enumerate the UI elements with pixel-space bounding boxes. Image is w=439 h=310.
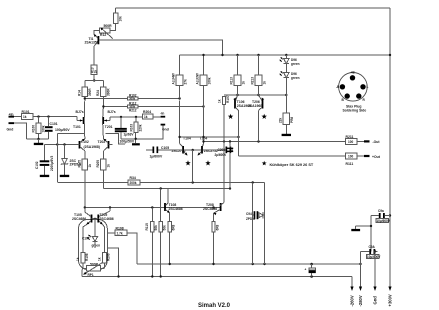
svg-text:390R: 390R — [88, 88, 92, 96]
svg-text:+B: +B — [351, 71, 356, 75]
wire T11 collector — [100, 40, 223, 55]
svg-text:1k: 1k — [94, 70, 98, 74]
svg-text:T202: T202 — [98, 140, 106, 144]
svg-text:R103: R103 — [129, 124, 133, 132]
svg-text:1k: 1k — [144, 115, 148, 119]
wire rail B y276.5 — [82, 276, 352, 278]
svg-text:ALU3W: ALU3W — [196, 73, 200, 84]
svg-text:R14: R14 — [78, 90, 82, 96]
svg-text:100µ/50V: 100µ/50V — [120, 140, 135, 144]
svg-text:-Out: -Out — [373, 140, 381, 144]
svg-text:2µ/600V: 2µ/600V — [215, 153, 228, 157]
terminal +300V — [388, 287, 393, 307]
wire mid supply vertical — [370, 216, 372, 252]
transistor T104 — [172, 101, 191, 156]
svg-text:22k: 22k — [279, 118, 283, 123]
resistor R204 1k — [110, 110, 161, 119]
resistor R110 emitter T108 — [168, 213, 176, 264]
resistor R209 top right load — [196, 54, 212, 107]
wire -Out rail y141.5 — [204, 141, 346, 143]
wire rail y207.5 — [85, 207, 221, 209]
capacitor C205 — [226, 147, 234, 154]
svg-text:1k: 1k — [88, 164, 92, 168]
resistor R34 200k — [128, 176, 140, 185]
svg-text:500R: 500R — [104, 24, 113, 28]
wire -280V drop — [360, 252, 362, 288]
wire T202 source elbow — [106, 134, 125, 145]
svg-text:C105: C105 — [161, 146, 169, 150]
resistor R102 300k — [127, 93, 138, 100]
star T204 — [205, 160, 211, 165]
resistor R108 1.7k — [107, 226, 137, 264]
svg-text:BJ7s: BJ7s — [76, 110, 84, 114]
resistor R11 — [110, 8, 122, 30]
capacitor C9a — [371, 209, 391, 223]
resistor R105 — [78, 151, 92, 208]
node dots rail y55 — [221, 54, 223, 56]
wire base join pair — [92, 218, 99, 220]
svg-text:Kühlköper SK 629 26 ST: Kühlköper SK 629 26 ST — [270, 163, 314, 167]
resistor R117 — [279, 95, 294, 134]
svg-text:T101: T101 — [73, 125, 81, 129]
svg-text:100: 100 — [348, 155, 353, 159]
transistor T105 — [72, 208, 92, 253]
wire gnd bus left — [27, 138, 49, 140]
svg-text:green: green — [291, 76, 300, 80]
terminal -260V — [350, 287, 355, 307]
zener ZPD6.8 — [246, 212, 265, 221]
resistor R112 100k — [127, 101, 138, 112]
star note — [262, 161, 267, 166]
capacitor C104 — [115, 116, 135, 144]
wire base line y150 — [146, 149, 153, 151]
resistor R106 — [76, 253, 89, 269]
terminal -Out — [364, 140, 380, 144]
resistor R13 — [90, 46, 97, 81]
svg-text:R107: R107 — [226, 95, 230, 103]
zener D101 ZPD5.6 — [61, 145, 81, 175]
svg-text:390R: 390R — [106, 88, 110, 96]
svg-text:R106: R106 — [85, 253, 89, 261]
svg-text:10k: 10k — [118, 16, 122, 21]
svg-text:+: + — [305, 268, 307, 272]
svg-text:1k: 1k — [217, 99, 221, 103]
svg-text:2SA1358: 2SA1358 — [85, 40, 99, 44]
wire tail node vertical — [56, 134, 58, 183]
transistor T106 — [233, 95, 251, 156]
svg-text:C208: C208 — [218, 148, 226, 152]
led D206 green — [280, 71, 300, 95]
svg-text:R100: R100 — [31, 125, 35, 133]
resistor R205 — [96, 151, 110, 189]
wire bias rail y55 — [180, 54, 390, 56]
svg-text:300k: 300k — [129, 97, 135, 101]
svg-text:Gnd: Gnd — [373, 296, 378, 305]
wire -260V drop — [351, 277, 353, 288]
svg-text:2SC4686: 2SC4686 — [203, 207, 217, 211]
wire pot to rail B — [82, 268, 83, 276]
terminal Gnd left — [7, 122, 27, 139]
led D107 — [82, 235, 100, 248]
resistor R210 emitter T208 — [212, 213, 220, 264]
resistor R213 — [251, 55, 267, 95]
svg-text:Gnd: Gnd — [7, 128, 14, 132]
svg-text:C94: C94 — [246, 212, 252, 216]
svg-text:1k: 1k — [23, 115, 27, 119]
node split under R13 — [93, 79, 95, 81]
svg-text:1µ/600V: 1µ/600V — [150, 155, 163, 159]
resistor R100 100k — [31, 117, 45, 139]
svg-text:Simah V2.0: Simah V2.0 — [198, 303, 231, 309]
resistor R14 390R — [78, 81, 92, 99]
svg-text:green: green — [291, 62, 300, 66]
svg-text:2200µ/6V3: 2200µ/6V3 — [50, 155, 54, 171]
svg-text:ZPD 6: ZPD 6 — [246, 217, 255, 221]
svg-text:C107: C107 — [82, 237, 90, 241]
potentiometer RP1 500R — [83, 262, 105, 277]
svg-text:R113: R113 — [230, 77, 234, 85]
capacitor C9A — [361, 245, 382, 259]
capacitor C95 rail bridge — [305, 264, 316, 277]
resistor R111 — [346, 153, 365, 166]
terminal -In — [160, 111, 165, 117]
svg-text:BJ7s: BJ7s — [108, 110, 116, 114]
wire base bus y144.5 — [45, 144, 80, 146]
resistor R113 — [230, 55, 246, 95]
node input — [37, 115, 39, 117]
svg-text:100: 100 — [348, 140, 353, 144]
svg-text:56k: 56k — [163, 225, 167, 230]
svg-text:R205: R205 — [96, 160, 100, 168]
terminal Gnd right — [121, 124, 169, 139]
svg-text:10µ/600V: 10µ/600V — [367, 255, 381, 259]
svg-text:(2SA1968): (2SA1968) — [84, 145, 100, 149]
wire T102 source link — [57, 133, 84, 135]
transistor T204 — [198, 107, 218, 156]
svg-text:6R8: 6R8 — [172, 224, 176, 230]
svg-text:R105: R105 — [78, 160, 82, 168]
wire cascode drop left — [252, 183, 254, 265]
svg-text:R204: R204 — [143, 110, 151, 114]
capacitor C105 — [150, 146, 170, 158]
svg-text:10µ/600V: 10µ/600V — [376, 219, 390, 223]
svg-text:200k: 200k — [130, 181, 137, 185]
svg-text:1k: 1k — [76, 257, 80, 261]
wire Gnd drop — [374, 252, 376, 288]
resistor R206 — [98, 253, 111, 269]
svg-text:R213: R213 — [251, 77, 255, 85]
star T206 — [261, 114, 267, 119]
svg-text:100k: 100k — [207, 77, 211, 84]
svg-text:1µ/63V: 1µ/63V — [124, 132, 135, 136]
svg-text:6R8: 6R8 — [215, 224, 219, 230]
resistor R103 — [129, 116, 142, 143]
svg-text:R12: R12 — [100, 33, 106, 37]
ground — [34, 139, 43, 145]
resistor R109 top left load — [172, 55, 188, 99]
led D106 green — [280, 55, 300, 73]
svg-text:C101: C101 — [50, 122, 58, 126]
svg-text:C9a: C9a — [378, 209, 384, 213]
resistor R101 1k — [22, 110, 78, 120]
transistor T208 — [203, 142, 224, 216]
star T106 — [228, 114, 234, 119]
wire +Out rail y156 — [239, 155, 346, 157]
svg-text:+Out: +Out — [372, 155, 381, 159]
svg-text:C102: C102 — [35, 161, 39, 169]
svg-text:2SA1968: 2SA1968 — [248, 104, 262, 108]
resistor R115 — [145, 208, 158, 277]
ground zener — [60, 175, 69, 177]
terminal +In — [9, 112, 22, 117]
star T104 — [185, 160, 191, 165]
transistor T108 — [165, 189, 183, 214]
resistor R107 — [217, 95, 230, 141]
transistor T101 jfet — [73, 99, 85, 139]
wire y137 — [180, 136, 239, 138]
svg-text:-280V: -280V — [358, 295, 363, 306]
svg-text:1.7k: 1.7k — [117, 231, 123, 235]
svg-text:R24: R24 — [96, 90, 100, 96]
terminal -280V — [358, 287, 363, 307]
wire cascode drop right — [264, 183, 266, 265]
svg-text:-In: -In — [160, 111, 164, 115]
resistor R116 — [159, 189, 167, 277]
resistor R211 — [346, 135, 365, 144]
ground mid — [132, 143, 140, 145]
terminal Gnd — [373, 287, 378, 305]
stax plug socket — [336, 71, 369, 113]
svg-text:1k: 1k — [98, 257, 102, 261]
wire right supply vertical — [389, 8, 391, 288]
wire block tap to rail B — [107, 248, 118, 277]
transistor T201 jfet — [103, 107, 116, 139]
transistor T102 — [80, 139, 89, 151]
svg-text:1k: 1k — [241, 81, 245, 85]
svg-text:100µ/50V: 100µ/50V — [55, 128, 70, 132]
svg-text:220k: 220k — [139, 124, 143, 131]
svg-text:+300V: +300V — [388, 294, 393, 306]
ground supply — [351, 225, 372, 231]
capacitor C94 — [246, 211, 258, 219]
capacitor C101 100u/50V — [45, 117, 70, 139]
svg-text:1k: 1k — [106, 164, 110, 168]
wire C205 to rail — [229, 154, 231, 189]
svg-text:2SC4686: 2SC4686 — [169, 207, 183, 211]
wire feedback rail y182.5 — [58, 182, 128, 184]
wire load rail upper — [85, 98, 128, 100]
svg-text:ALU4W: ALU4W — [172, 73, 176, 84]
node supply tap — [389, 214, 391, 216]
ground R117 — [282, 134, 291, 136]
wire upper cascode rail y95 — [224, 94, 286, 96]
terminal +Out — [364, 155, 381, 159]
svg-text:PR8: PR8 — [290, 117, 294, 123]
ground C102 — [40, 175, 49, 177]
svg-text:27k: 27k — [184, 79, 188, 84]
wire load rail lower — [103, 106, 127, 108]
svg-text:T201: T201 — [105, 125, 113, 129]
transistor T205 — [98, 208, 113, 253]
transistor T206 — [248, 95, 264, 142]
svg-text:L: L — [367, 85, 369, 89]
potentiometer R12 500R — [94, 24, 113, 38]
matched pair outline — [79, 220, 108, 270]
svg-text:-260V: -260V — [350, 295, 355, 306]
svg-text:1k: 1k — [262, 81, 266, 85]
capacitor C102 — [35, 145, 54, 175]
svg-text:2SC4686: 2SC4686 — [100, 217, 114, 221]
svg-text:R212: R212 — [129, 108, 137, 112]
wire emitter join down — [192, 150, 194, 183]
wire rail A -260V-ish y264 — [137, 263, 361, 265]
svg-text:R111: R111 — [346, 162, 354, 166]
capacitor C206 feedback — [215, 142, 234, 158]
svg-text:C9A: C9A — [369, 245, 376, 249]
svg-text:R34: R34 — [130, 176, 136, 180]
transistor T11 2SA1358 — [85, 34, 101, 46]
transistor T202 — [84, 139, 113, 151]
svg-text:green: green — [92, 244, 101, 248]
wire rail y188.5 — [103, 188, 230, 190]
svg-text:R206: R206 — [106, 253, 110, 261]
resistor R24 390R — [96, 81, 110, 107]
svg-text:Soldering Side: Soldering Side — [343, 108, 367, 112]
svg-text:R115: R115 — [145, 223, 149, 231]
svg-text:2SC4686: 2SC4686 — [72, 217, 86, 221]
svg-text:56k: 56k — [154, 225, 158, 230]
wire +300V top rail — [116, 7, 390, 9]
